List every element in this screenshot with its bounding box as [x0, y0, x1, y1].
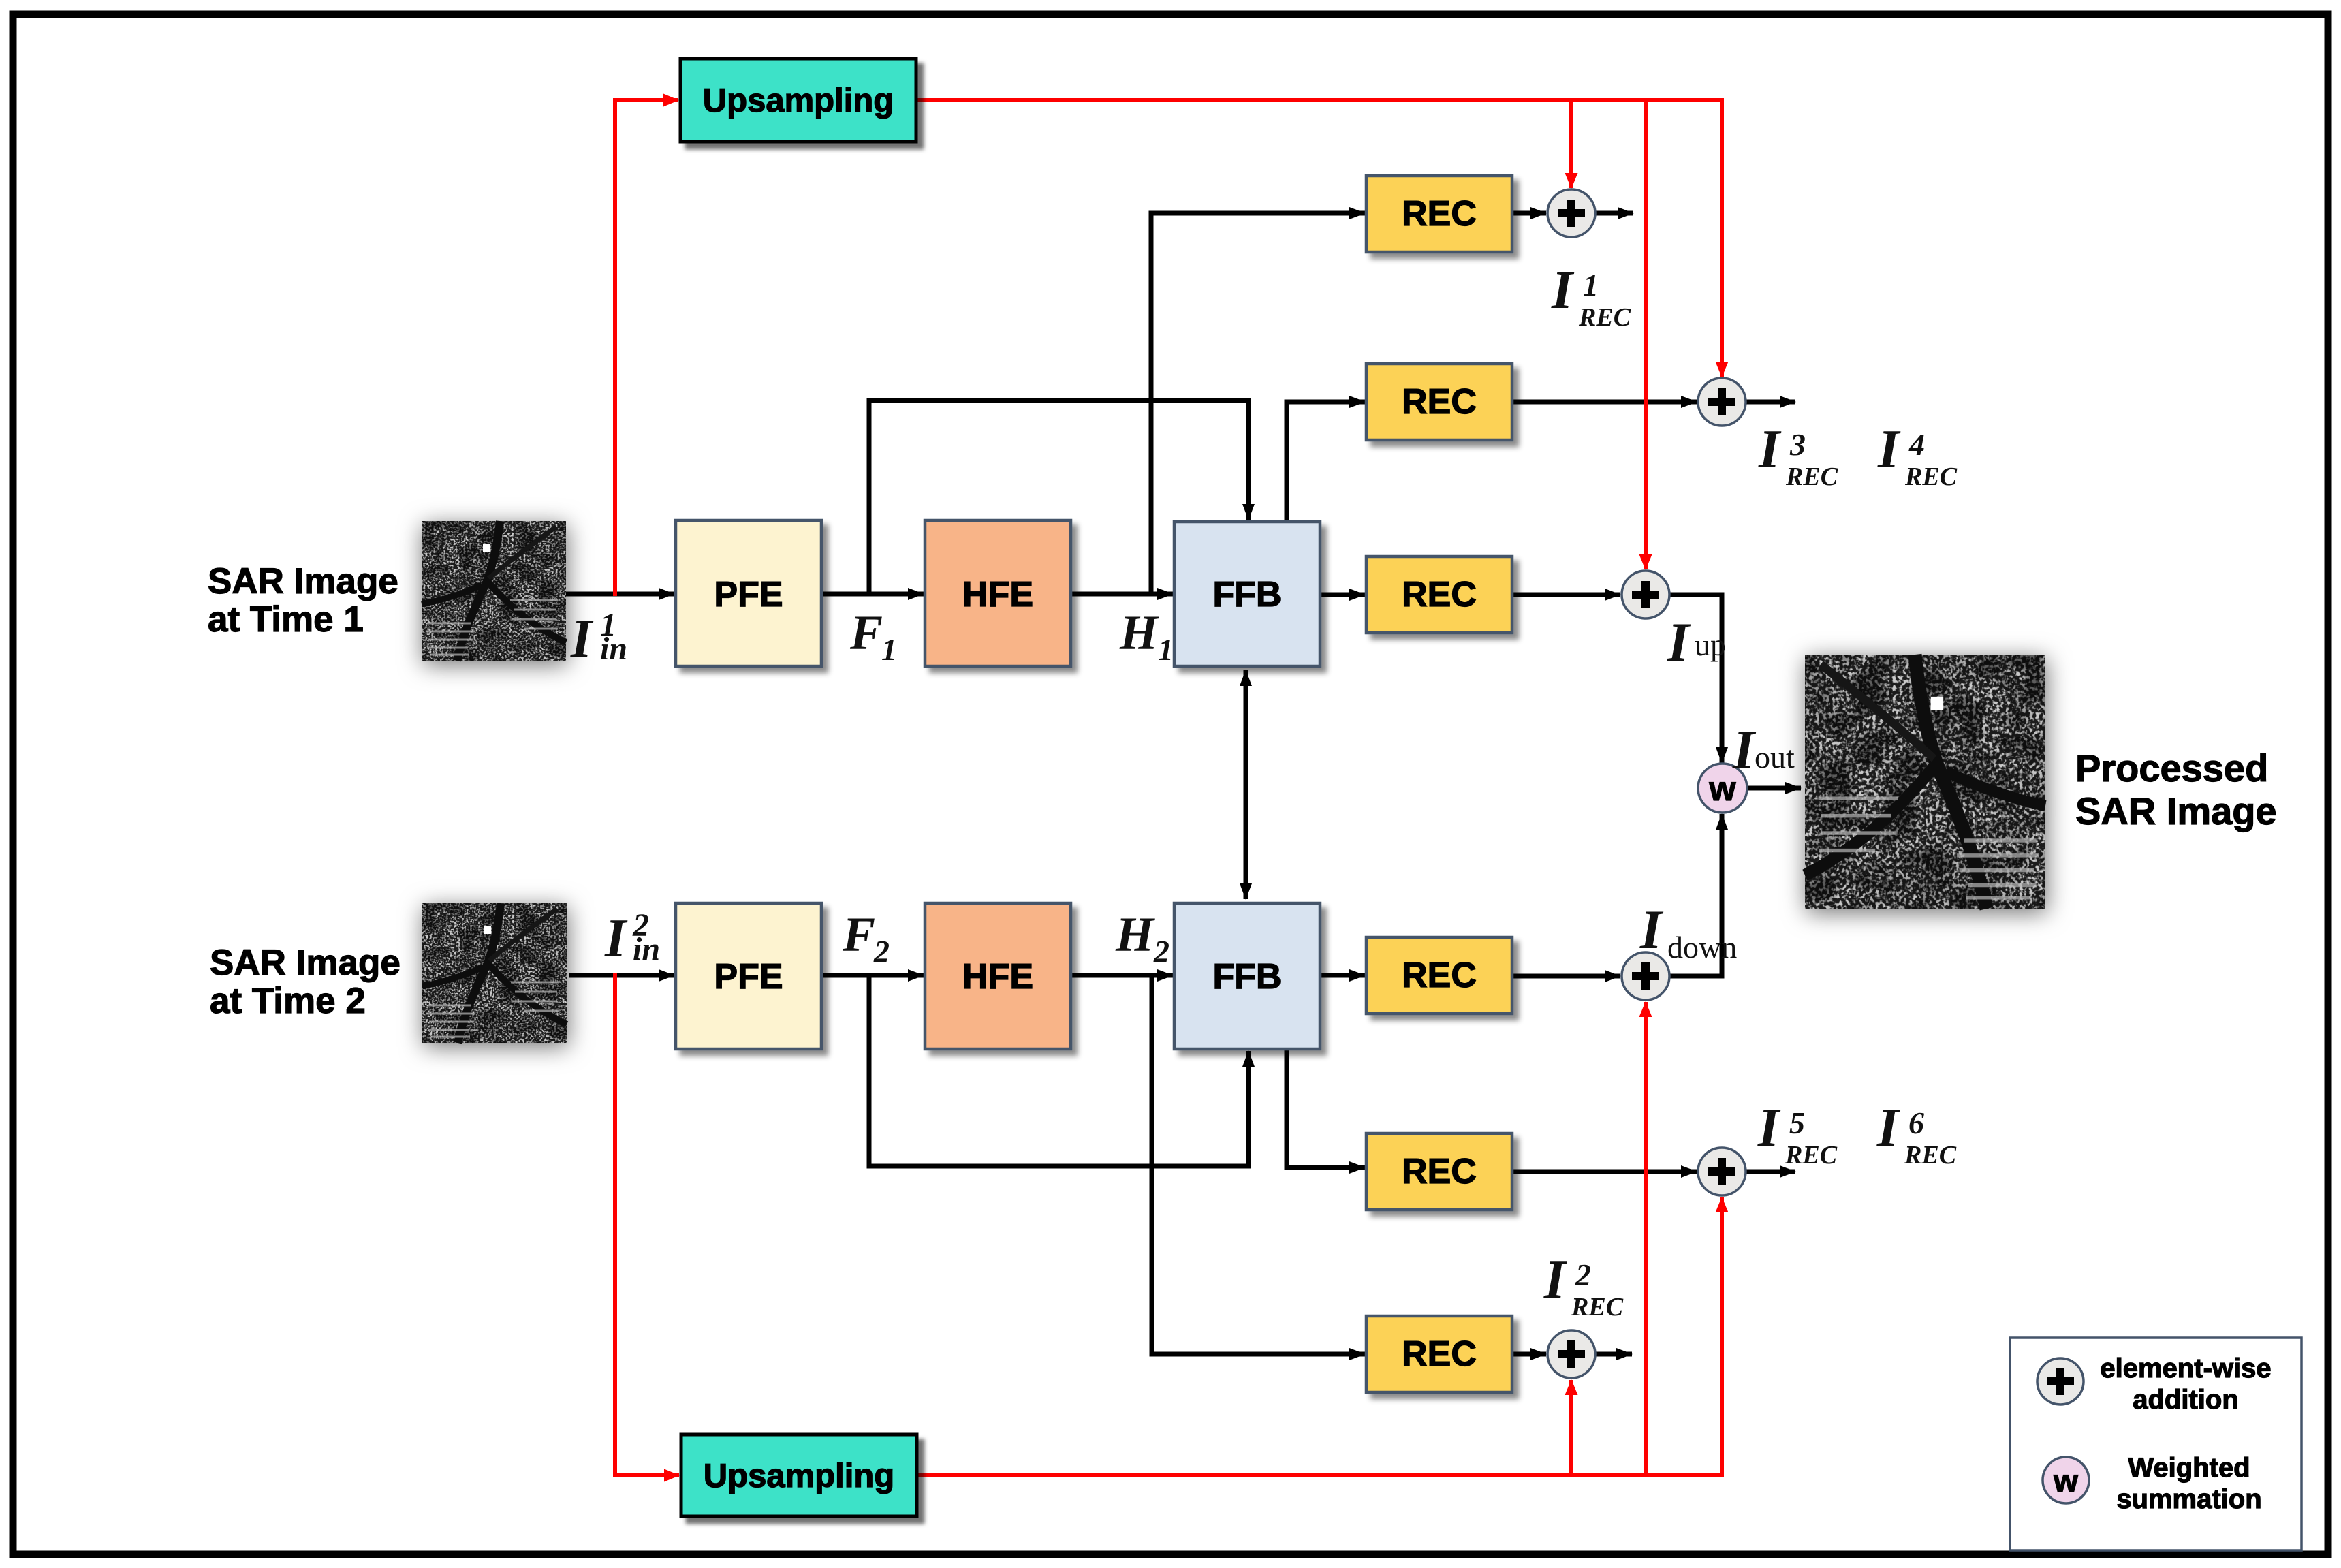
svg-text:Upsampling: Upsampling: [703, 82, 894, 119]
svg-text:FFB: FFB: [1212, 957, 1281, 997]
label I REC 5 and I REC 6: [1757, 1098, 1957, 1170]
wire REC5 to plus5: [1512, 1170, 1697, 1174]
box Upsampling top: [680, 59, 916, 142]
wire FFB1-FFB2 exchange up arrow: [1244, 670, 1248, 785]
box PFE2: [676, 903, 821, 1049]
wire H1 branch to REC1: [1151, 213, 1365, 594]
SAR image at time 1 thumbnail: [422, 521, 566, 661]
box Upsampling bottom: [681, 1434, 917, 1516]
svg-text:1: 1: [1583, 268, 1599, 302]
svg-text:REC: REC: [1402, 956, 1477, 995]
svg-text:element-wise: element-wise: [2100, 1353, 2271, 1383]
svg-text:2: 2: [1153, 934, 1169, 969]
svg-text:down: down: [1667, 930, 1737, 965]
svg-text:I: I: [1758, 420, 1782, 480]
wire REC3 to plus3: [1512, 593, 1620, 597]
wire FFB1-FFB2 exchange down arrow: [1244, 785, 1248, 899]
label I in 2: [604, 907, 660, 969]
label I REC 2: [1543, 1250, 1624, 1321]
label F 2: [842, 907, 890, 969]
svg-text:PFE: PFE: [714, 575, 783, 614]
box HFE2: [925, 903, 1071, 1049]
node plus5: [1698, 1148, 1746, 1195]
box REC4: [1366, 937, 1512, 1014]
svg-text:REC: REC: [1578, 303, 1631, 332]
processed SAR image: [1805, 655, 2045, 909]
node plus4: [1622, 952, 1669, 1000]
svg-text:I: I: [1667, 611, 1691, 673]
box REC3: [1366, 556, 1512, 633]
svg-text:I: I: [1757, 1098, 1781, 1158]
wire plus6 out: [1594, 1352, 1632, 1357]
svg-text:Weighted: Weighted: [2128, 1453, 2250, 1483]
svg-text:REC: REC: [1904, 462, 1958, 491]
svg-text:REC: REC: [1402, 194, 1477, 234]
wire plus1 out: [1595, 211, 1633, 216]
wire plus4 to W node (I down): [1669, 814, 1722, 976]
svg-text:I: I: [1551, 260, 1575, 320]
node W weighted summation: [1698, 764, 1747, 813]
wire REC4 to plus4: [1512, 974, 1620, 979]
svg-text:w: w: [2053, 1463, 2078, 1499]
svg-text:5: 5: [1789, 1106, 1805, 1140]
svg-text:SAR Image: SAR Image: [210, 943, 400, 983]
box FFB1: [1174, 522, 1320, 666]
svg-text:REC: REC: [1785, 1141, 1838, 1170]
svg-text:REC: REC: [1785, 462, 1838, 491]
svg-text:H: H: [1119, 606, 1159, 660]
wire FFB1 top to REC2: [1287, 402, 1365, 522]
label I REC 1: [1551, 260, 1631, 332]
svg-text:F: F: [849, 606, 883, 660]
wire plus5 out: [1746, 1170, 1795, 1174]
label F 1: [849, 606, 897, 667]
box FFB2: [1174, 903, 1320, 1049]
svg-text:REC: REC: [1402, 1334, 1477, 1374]
svg-text:I: I: [604, 909, 628, 969]
svg-text:REC: REC: [1904, 1141, 1957, 1170]
svg-text:H: H: [1115, 907, 1155, 962]
svg-text:REC: REC: [1571, 1293, 1624, 1321]
box REC6: [1366, 1316, 1512, 1392]
wire F1 branch into FFB1 top: [869, 401, 1248, 594]
svg-text:Processed: Processed: [2075, 747, 2268, 789]
svg-text:addition: addition: [2133, 1385, 2239, 1415]
svg-text:out: out: [1755, 740, 1795, 774]
box HFE1: [925, 520, 1071, 666]
wire HFE2 to FFB2: [1071, 973, 1173, 978]
wire PFE2 to HFE2: [821, 973, 924, 978]
red wire branch up to plus4: [1644, 1002, 1648, 1475]
wire main row 2: SAR2 to PFE2: [569, 973, 674, 978]
box REC1: [1366, 176, 1512, 252]
SAR image at time 2 thumbnail: [422, 903, 567, 1043]
node plus3: [1622, 571, 1669, 618]
svg-text:I: I: [570, 609, 594, 669]
wire FFB2 to REC4: [1320, 973, 1365, 978]
svg-text:3: 3: [1789, 427, 1806, 462]
wire HFE1 to FFB1: [1071, 592, 1173, 597]
svg-text:w: w: [1709, 770, 1736, 808]
wire REC6 to plus6: [1512, 1352, 1546, 1357]
svg-text:summation: summation: [2116, 1484, 2261, 1514]
svg-text:up: up: [1695, 627, 1726, 662]
label I in 1: [570, 607, 627, 669]
wire plus2 out: [1746, 400, 1795, 405]
red wire: input1 junction up to Upsampling1: [615, 100, 678, 596]
svg-text:HFE: HFE: [962, 957, 1033, 997]
svg-text:2: 2: [873, 934, 890, 969]
svg-text:1: 1: [1158, 632, 1174, 667]
label I REC 3 and I REC 4: [1758, 420, 1958, 491]
svg-text:SAR Image: SAR Image: [208, 561, 398, 601]
red wire: Upsampling2 out across bottom, up to plus5: [917, 1197, 1722, 1475]
red wire branch up to plus6: [1569, 1380, 1573, 1475]
wire PFE1 to HFE1: [821, 592, 924, 597]
svg-text:I: I: [1639, 898, 1664, 960]
label I out: [1732, 719, 1795, 781]
wire F2 branch into FFB2 bottom: [869, 975, 1248, 1166]
legend box: [2010, 1338, 2301, 1550]
legend plus node: [2037, 1358, 2084, 1405]
svg-text:in: in: [600, 631, 627, 667]
svg-text:I: I: [1543, 1250, 1567, 1310]
red wire: input2 junction down to Upsampling2: [615, 973, 679, 1475]
box PFE1: [676, 520, 821, 666]
svg-text:Upsampling: Upsampling: [704, 1458, 894, 1494]
label H 1: [1119, 606, 1174, 667]
svg-text:at Time 1: at Time 1: [208, 599, 364, 640]
node plus6: [1547, 1330, 1595, 1378]
wire main row 1: SAR1 to PFE: [566, 592, 674, 597]
wire REC2 to plus2: [1512, 400, 1697, 405]
wire REC1 to plus1: [1512, 211, 1546, 216]
svg-text:SAR Image: SAR Image: [2075, 789, 2277, 832]
svg-text:FFB: FFB: [1212, 575, 1281, 614]
wire FFB1 to REC3: [1320, 593, 1365, 597]
svg-text:at Time 2: at Time 2: [210, 981, 366, 1021]
svg-text:I: I: [1732, 719, 1757, 781]
svg-text:F: F: [842, 907, 875, 962]
node plus2: [1698, 378, 1746, 426]
red wire branch down to plus1: [1569, 100, 1573, 188]
box REC2: [1366, 364, 1512, 440]
svg-text:in: in: [633, 931, 660, 967]
label H 2: [1115, 907, 1169, 969]
wire W to processed image (I out): [1747, 786, 1801, 791]
node plus1: [1547, 189, 1595, 237]
svg-text:1: 1: [881, 632, 897, 667]
svg-text:REC: REC: [1402, 1152, 1477, 1191]
svg-text:HFE: HFE: [962, 575, 1033, 614]
svg-text:PFE: PFE: [714, 957, 783, 997]
label I down: [1639, 898, 1737, 965]
red wire branch down to plus3: [1644, 100, 1648, 569]
label I up: [1667, 611, 1726, 673]
svg-text:REC: REC: [1402, 575, 1477, 614]
box REC5: [1366, 1133, 1512, 1210]
legend W node: [2043, 1457, 2089, 1503]
svg-text:I: I: [1876, 1098, 1900, 1158]
wire H2 branch to REC6: [1152, 975, 1365, 1354]
wire FFB2 bottom to REC5: [1287, 1049, 1365, 1167]
red wire: Upsampling1 out across top, down to plus2: [917, 100, 1722, 377]
svg-text:6: 6: [1908, 1106, 1924, 1140]
svg-text:REC: REC: [1402, 382, 1477, 422]
wire plus3 to W node (I up): [1669, 595, 1722, 763]
svg-text:4: 4: [1908, 427, 1925, 462]
svg-text:I: I: [1877, 420, 1901, 480]
svg-text:2: 2: [1575, 1257, 1591, 1292]
